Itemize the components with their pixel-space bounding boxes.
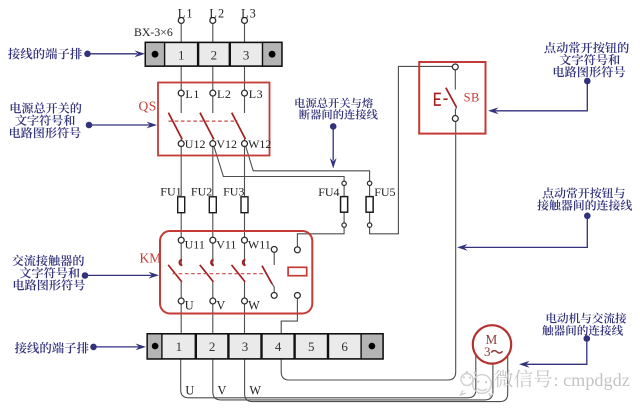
label QS [139, 99, 157, 114]
annotation: SB symbol [488, 42, 629, 114]
wire FU5 top stub [369, 185, 371, 197]
wire KM pole 2 internal bottom [212, 282, 214, 299]
annotation: QS-fuse connecting wire [295, 98, 377, 169]
KM main contact 1 lower terminal U [178, 298, 184, 304]
label W output [249, 383, 261, 397]
motor M circle [473, 325, 511, 363]
label L1 top [178, 6, 194, 20]
wire W12 branch to fuse FU5 [246, 146, 370, 182]
wire U from XT2 to motor [181, 354, 476, 398]
KM main contact 2 blade [200, 265, 214, 282]
watermark wechat id [461, 369, 630, 396]
wire KM aux internal bottom stub [272, 284, 274, 293]
wire W from XT2 to motor [245, 355, 508, 402]
QS pole 1 blade [168, 113, 182, 140]
wire QS pole 1 internal bottom stub [180, 139, 182, 141]
KM gang dashed link [173, 273, 268, 275]
wire L1 drop from top terminal to terminal block XT1 [180, 23, 182, 44]
label W11 [248, 238, 271, 252]
svg-text:1: 1 [178, 47, 185, 62]
label V output [218, 383, 227, 397]
fuse FU3 body [241, 197, 248, 213]
label U12 [185, 137, 206, 151]
wire L3 drop from top terminal to terminal block XT1 [244, 23, 246, 44]
QS pole 1 lower terminal U12 [178, 141, 184, 147]
svg-text:U11: U11 [185, 238, 205, 252]
label U KM pin [185, 299, 194, 313]
wire FU4 top stub [343, 185, 345, 197]
fuse FU1 body [178, 197, 185, 213]
wire L3 from XT1 to QS terminal [244, 66, 246, 92]
wire QS pole 2 internal bottom stub [212, 139, 214, 141]
wire fuse FU2 to contactor terminal [212, 213, 214, 238]
annotation: KM symbol [12, 255, 159, 291]
terminal block XT2 (motor output) [147, 334, 383, 359]
svg-text:W12: W12 [248, 137, 271, 151]
label W12 [248, 137, 271, 151]
KM main contact 1 blade [168, 265, 182, 282]
QS pole 3 upper terminal L3 [242, 90, 248, 96]
node L3 top terminal [242, 18, 248, 24]
KM coil lower terminal [294, 292, 300, 298]
label L3 top [241, 6, 257, 20]
wire KM pole 1 internal bottom [180, 282, 182, 299]
svg-text:BX-3×6: BX-3×6 [134, 25, 173, 39]
SB blade [446, 88, 457, 108]
fuse FU4 lower terminal [342, 223, 346, 227]
QS pole 2 lower terminal V12 [210, 141, 216, 147]
KM auxiliary contact blade [262, 266, 272, 284]
wire XT2 terminal 4 up to KM coil [281, 298, 297, 334]
svg-text:3: 3 [484, 344, 491, 359]
svg-text:6: 6 [341, 339, 348, 354]
KM main contact 3 upper terminal W11 [242, 237, 248, 243]
wire KM pole 3 internal top [244, 243, 246, 265]
QS pole 2 blade [200, 113, 214, 140]
label FU5 [374, 185, 395, 199]
svg-text:W: W [249, 383, 261, 397]
wire FU5 bottom up to button SB [370, 66, 453, 233]
KM main contact 2 fixed-contact arc [211, 260, 214, 266]
wire fuse FU3 to contactor terminal [244, 213, 246, 238]
wire QS pole 3 internal top [244, 96, 246, 114]
svg-text:V11: V11 [216, 238, 236, 252]
svg-text:L2: L2 [217, 87, 232, 101]
KM main contact 1 upper terminal U11 [178, 237, 184, 243]
wire V from XT2 to motor [213, 359, 493, 400]
svg-text:U12: U12 [185, 137, 206, 151]
QS pole 3 blade [232, 113, 246, 140]
label FU2 [191, 185, 212, 199]
svg-text:W: W [248, 299, 260, 313]
fuse FU5 body [366, 197, 373, 213]
svg-text:FU2: FU2 [191, 185, 212, 199]
svg-text:V: V [216, 299, 225, 313]
label W KM pin [248, 299, 260, 313]
svg-text:U: U [185, 299, 194, 313]
push button SB box [419, 62, 485, 134]
wire KM output 1 to terminal block XT2 [180, 304, 182, 335]
fuse FU4 body [341, 197, 348, 213]
label L1 QS pin [185, 87, 200, 101]
svg-text:FU3: FU3 [223, 185, 244, 199]
svg-text:FU1: FU1 [160, 185, 181, 199]
label M [486, 332, 498, 347]
svg-text:2: 2 [209, 339, 216, 354]
svg-text:W11: W11 [248, 238, 271, 252]
wire QS pole 2 internal top [212, 96, 214, 114]
svg-text:L3: L3 [249, 87, 264, 101]
wire SB bottom down and to terminal 4 of XT2 [281, 121, 456, 380]
svg-text:2: 2 [211, 47, 218, 62]
disconnect switch QS box [158, 83, 270, 156]
annotation: SB-KM connecting wire [457, 187, 632, 250]
svg-text:SB: SB [464, 91, 480, 105]
fuse FU2 body [209, 197, 216, 213]
QS pole 1 upper terminal L1 [178, 90, 184, 96]
label FU4 [318, 185, 339, 199]
QS pole 2 upper terminal L2 [210, 90, 216, 96]
terminal block XT1 (power input, BX-3x6) [145, 42, 282, 66]
label FU3 [223, 185, 244, 199]
KM main contact 1 fixed-contact arc [179, 260, 182, 266]
wire KM aux internal top [273, 252, 275, 265]
svg-text:U: U [185, 383, 194, 397]
QS pole 3 lower terminal W12 [242, 141, 248, 147]
wire L1 from XT1 to QS terminal [180, 66, 182, 92]
svg-text:FU5: FU5 [374, 185, 395, 199]
KM auxiliary contact upper terminal [271, 246, 277, 252]
svg-text:3: 3 [242, 339, 249, 354]
annotation: terminal strip (bottom) [15, 342, 146, 354]
wire V12 branch to fuse FU4 [214, 146, 344, 181]
label U11 [185, 238, 205, 252]
svg-text:V: V [218, 383, 227, 397]
KM main contact 3 blade [232, 265, 246, 282]
label BX-3x6 [134, 25, 173, 39]
wire U12/V12/W12 phase 3 down to fuse FU3 [244, 146, 246, 197]
wire fuse FU1 to contactor terminal [180, 213, 182, 238]
KM main contact 3 lower terminal W [242, 298, 248, 304]
SB actuator E symbol [435, 93, 448, 105]
wire SB internal bottom stub [455, 107, 456, 116]
wire U12/V12/W12 phase 1 down to fuse FU1 [180, 146, 182, 197]
svg-text:5: 5 [308, 339, 315, 354]
svg-text:4: 4 [275, 339, 282, 354]
node L1 top terminal [178, 18, 184, 24]
label SB [464, 91, 480, 105]
KM coil upper terminal [294, 247, 300, 253]
fuse FU4 upper terminal [342, 181, 346, 185]
wire SB internal top [454, 70, 456, 90]
svg-text:1: 1 [176, 339, 183, 354]
label L2 top [209, 6, 225, 20]
wire KM output 2 to terminal block XT2 [212, 304, 214, 335]
label V KM pin [216, 299, 225, 313]
svg-text:3: 3 [243, 47, 250, 62]
wire QS pole 3 internal bottom stub [244, 139, 246, 141]
svg-text:: cmpdgdz: : cmpdgdz [554, 370, 630, 390]
fuse FU5 lower terminal [367, 223, 371, 227]
label KM [140, 250, 162, 265]
wire L2 from XT1 to QS terminal [212, 66, 214, 92]
SB lower terminal [452, 116, 458, 122]
label U output [185, 383, 194, 397]
wire KM output 3 to terminal block XT2 [244, 304, 246, 335]
svg-text:FU4: FU4 [318, 185, 339, 199]
KM auxiliary contact lower terminal [271, 292, 277, 298]
svg-text:L2: L2 [209, 6, 225, 20]
label L2 QS pin [217, 87, 232, 101]
wire KM pole 3 internal bottom [244, 282, 246, 299]
KM main contact 2 lower terminal V [210, 298, 216, 304]
label L3 QS pin [249, 87, 264, 101]
svg-text:KM: KM [140, 250, 162, 265]
label 3~ [484, 344, 503, 359]
svg-text:L3: L3 [241, 6, 257, 20]
svg-text:QS: QS [139, 99, 157, 114]
svg-text:L1: L1 [185, 87, 200, 101]
annotation: terminal strip (top) [8, 48, 145, 60]
annotation: motor-KM connecting wire [519, 313, 626, 368]
QS gang dashed link [169, 120, 238, 122]
KM main contact 3 fixed-contact arc [243, 260, 246, 266]
wire QS pole 1 internal top [180, 96, 182, 114]
KM coil body [288, 267, 307, 275]
node L2 top terminal [210, 18, 216, 24]
wire U12/V12/W12 phase 2 down to fuse FU2 [212, 146, 214, 197]
label V11 [216, 238, 236, 252]
annotation: QS symbol [10, 102, 157, 138]
svg-text:L1: L1 [178, 6, 194, 20]
label FU1 [160, 185, 181, 199]
svg-text:V12: V12 [216, 137, 237, 151]
wire KM pole 1 internal top [180, 243, 182, 265]
contactor KM box [160, 231, 312, 314]
SB upper terminal [452, 64, 458, 70]
wire FU4 bottom to KM coil [297, 212, 344, 247]
label V12 [216, 137, 237, 151]
wire L2 drop from top terminal to terminal block XT1 [212, 23, 214, 44]
fuse FU5 upper terminal [367, 181, 371, 185]
wire KM pole 2 internal top [212, 243, 214, 265]
KM main contact 2 upper terminal V11 [210, 237, 216, 243]
